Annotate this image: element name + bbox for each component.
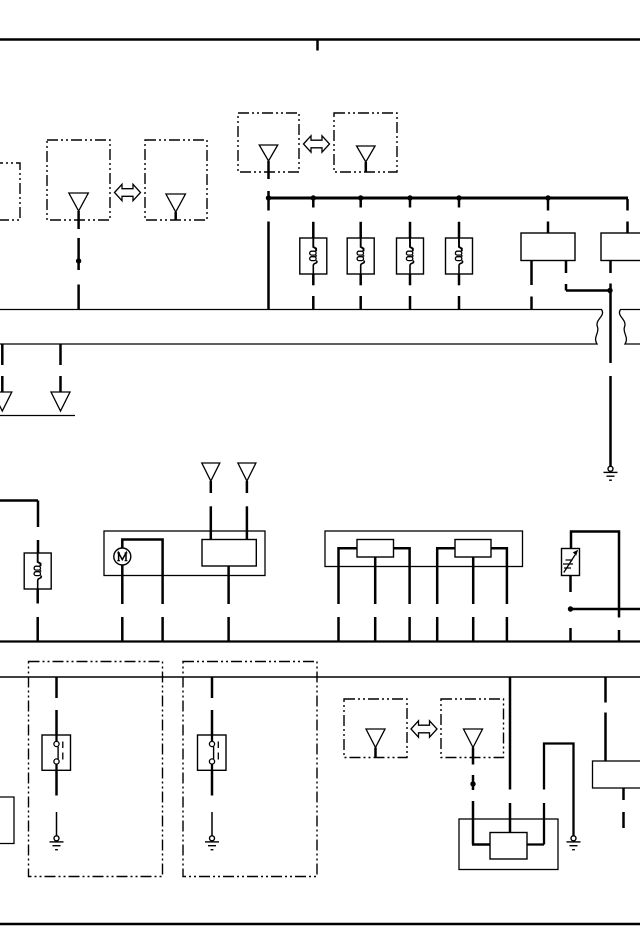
motor assembly box [104, 531, 265, 576]
wire harness cable left piece [0, 310, 603, 345]
wire switch 1 to ground [55, 770, 58, 795]
ignition coil inner box [490, 833, 527, 860]
ground G102 [54, 836, 59, 841]
wire R2 center to bus 2 [472, 557, 475, 604]
wire horizontal to right edge [571, 608, 640, 611]
wire left feed from edge [0, 499, 38, 502]
wire stem below C101 female terminal [174, 212, 177, 220]
wire igniter right loop to ground [527, 744, 574, 845]
wire relay box 1 right pin jog [565, 261, 568, 274]
igniter outer box [459, 819, 558, 870]
wire bus to injector 4 [458, 199, 461, 208]
switch unit box 2 [183, 662, 317, 877]
injector coil 1 [300, 238, 327, 274]
ground G103 [210, 836, 215, 841]
wire terminal 2 to sensor box [246, 506, 249, 539]
wire top border line [0, 38, 640, 41]
pressure switch SW1 [42, 735, 71, 770]
wire bus to relay box 1 [547, 199, 550, 211]
off-page underline [0, 415, 75, 417]
resistor R1 [357, 540, 394, 558]
wire bus to relay box 2 [626, 199, 629, 211]
wire stem below C102 female terminal [365, 162, 368, 172]
wire injector 4 to harness [458, 274, 461, 285]
relay box 1 [521, 233, 575, 261]
wire harness cable right piece [619, 310, 640, 345]
junction bus node 4 [456, 195, 461, 200]
wire sensor box to bus 2 [227, 566, 230, 604]
wire harness to off-page arrow 2 [59, 344, 62, 365]
connector terminal in C102 female [357, 146, 376, 162]
switch unit box 1 [29, 662, 163, 877]
component box (cut at left edge) [0, 797, 14, 844]
wire stem below C102 terminal [267, 161, 270, 179]
connector terminal in C101 female [166, 194, 186, 212]
junction sensor wire [568, 606, 573, 611]
resistor R2 [455, 540, 491, 558]
wire bus to injector 2 [359, 199, 362, 208]
mating arrow between C102 halves [304, 136, 330, 152]
wire relay box 1 left pin to harness [530, 261, 533, 286]
connector box C102 (male half) [238, 113, 299, 172]
bottom right box (cut at right edge) [593, 761, 640, 788]
wire top border tick [316, 40, 319, 51]
wire bottom border line [0, 923, 640, 926]
junction bus node 1 [311, 195, 316, 200]
mating arrow between C101 halves [115, 184, 141, 200]
wire switch 2 to ground [211, 770, 214, 795]
relay box 2 (cut at right edge) [601, 233, 640, 261]
pressure switch SW2 [198, 735, 227, 770]
resistor assembly box [325, 531, 523, 567]
wire module to igniter center [509, 677, 512, 790]
wire motor top loop [122, 540, 162, 605]
wire bus to injector 3 [409, 199, 412, 208]
wire control module boundary line [0, 676, 640, 678]
wire power bus [267, 197, 629, 200]
junction bus node 2 [358, 195, 363, 200]
wire junction to bus 2 [569, 628, 572, 642]
connector terminal above sensor box 2 [238, 463, 256, 481]
connector terminal in C102 male [259, 145, 278, 161]
connector box C102 (female half) [334, 113, 397, 172]
in-line connector dot [76, 258, 81, 263]
solenoid coil box [24, 553, 51, 589]
connector box C101 (male half) [47, 140, 110, 220]
wire stem below C101 terminal [77, 211, 80, 229]
wire below bottom right box [622, 788, 625, 800]
wire C103 to igniter [472, 748, 475, 765]
wire terminal 1 to sensor box [210, 506, 213, 539]
motor M1 [114, 548, 131, 565]
wire R1 left to bus 2 [339, 548, 358, 604]
wire injector 1 to harness [312, 274, 315, 285]
wire relay box 2 to ground [609, 261, 612, 274]
wire from C102 through bus to harness [267, 191, 270, 211]
wire R2 left to bus 2 [437, 548, 455, 604]
ground G104 [571, 836, 576, 841]
off-page arrow 1 [0, 392, 12, 411]
connector terminal in C103 female [464, 729, 483, 748]
junction bus node 5 [545, 195, 550, 200]
wire from C101 to harness [77, 238, 80, 270]
connector box C103 (male half) [344, 699, 407, 758]
in-line connector dot 2 [470, 781, 475, 786]
wire injector 2 to harness [359, 274, 362, 285]
sensor box inside motor assembly [202, 540, 256, 567]
connector terminal in C103 male [366, 729, 385, 748]
connector box C101 (female half) [145, 140, 207, 220]
junction on bus at C102 feed [266, 195, 271, 200]
wire to switch 2 [211, 677, 214, 698]
junction bus node 3 [407, 195, 412, 200]
junction relay wires [607, 288, 612, 293]
wire sensor bottom [569, 576, 572, 593]
wire terminal stem 2 [246, 481, 249, 493]
wire stem below C103 male terminal [374, 748, 377, 758]
injector coil 3 [397, 238, 424, 274]
injector coil 2 [347, 238, 374, 274]
wire module to bottom right box [604, 677, 607, 703]
wire bus 2 [0, 640, 640, 642]
connector box C103 (female half) [441, 699, 504, 758]
wire harness to off-page arrow 1 [1, 344, 4, 365]
wire motor bottom to bus 2 [121, 565, 124, 604]
mating arrow between C103 halves [411, 721, 437, 737]
variable sensor box [562, 549, 580, 576]
connector terminal above sensor box 1 [202, 463, 220, 481]
connector terminal in C101 male [69, 193, 89, 211]
wire R1 right to bus 2 [394, 548, 410, 604]
wire injector 3 to harness [409, 274, 412, 285]
off-page arrow 2 [51, 392, 70, 411]
wire bus to injector 1 [312, 199, 315, 208]
injector coil 4 [446, 238, 473, 274]
wire sensor loop to bus 2 [571, 532, 619, 618]
wire terminal stem 1 [210, 481, 213, 493]
wire R2 right to bus 2 [491, 548, 507, 604]
wire to switch 1 [55, 677, 58, 698]
connector box (cut at left edge) [0, 163, 20, 220]
wire R1 center to bus 2 [374, 557, 377, 604]
wire solenoid to bus 2 [36, 589, 39, 604]
variable sensor symbol [564, 555, 575, 573]
ground G101 [608, 466, 613, 471]
